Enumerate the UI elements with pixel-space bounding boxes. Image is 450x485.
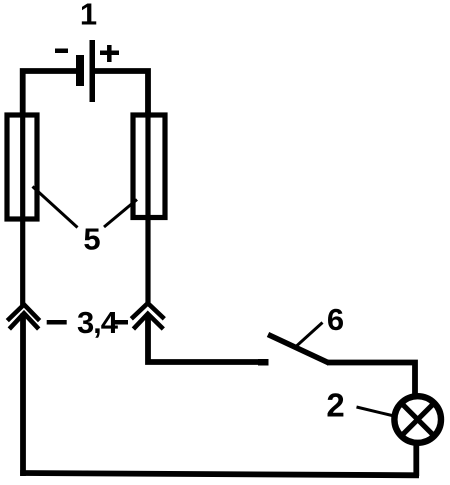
fuse F2 (right, label 5)	[133, 115, 165, 218]
wire top right: battery to right branch corner	[94, 71, 148, 113]
svg-text:2: 2	[326, 387, 344, 424]
wire from connector 4 to switch contact	[148, 314, 267, 362]
connector 4 (right plug-socket) upper chevron	[131, 303, 164, 319]
svg-text:6: 6	[327, 302, 344, 337]
svg-text:3,4: 3,4	[77, 305, 119, 340]
connector 3 lower chevron	[9, 313, 38, 329]
battery minus sign	[55, 49, 68, 54]
battery B1 negative plate	[76, 55, 84, 86]
svg-text:5: 5	[83, 222, 100, 257]
leader line from label 6 to switch blade	[297, 323, 323, 347]
battery B1 positive plate	[90, 40, 96, 102]
connector 4 lower chevron	[133, 314, 163, 329]
switch S1 left contact nub	[258, 359, 269, 366]
lamp HL1 cross stroke 1	[403, 405, 433, 435]
lamp HL1 cross stroke 2	[403, 405, 433, 435]
leader line from label 2 to lamp	[357, 407, 393, 416]
wire through left fuse down to connector	[20, 111, 25, 305]
wire from connector 3 down the left side	[20, 314, 26, 477]
wire from lamp bottom to bottom rail	[413, 441, 419, 476]
wire top left: battery to left branch corner	[23, 71, 77, 113]
leader line from left fuse to label 5	[33, 187, 78, 228]
lamp HL1 circle	[394, 396, 441, 443]
fuse F1 (left, label 5)	[7, 115, 37, 219]
wire from switch to lamp	[327, 363, 415, 397]
dash right of label 3,4	[114, 320, 128, 325]
leader line from label 5 to right fuse	[104, 200, 137, 228]
svg-text:1: 1	[80, 0, 97, 32]
connector 3 (left plug-socket) upper chevron	[7, 305, 39, 321]
bottom rail wire	[20, 473, 419, 475]
wire through right fuse down to connector	[145, 111, 150, 303]
dash left of label 3,4	[47, 320, 67, 325]
switch S1 blade (open)	[268, 335, 329, 364]
battery plus sign	[100, 45, 119, 62]
